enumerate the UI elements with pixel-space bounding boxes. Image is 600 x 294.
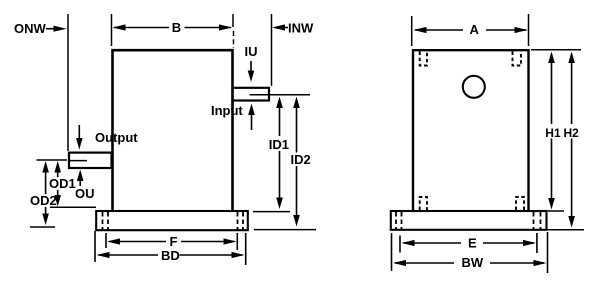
svg-text:H2: H2 — [564, 126, 580, 140]
svg-text:BW: BW — [462, 255, 484, 270]
svg-text:Input: Input — [211, 103, 243, 118]
svg-text:OU: OU — [75, 186, 95, 201]
svg-text:INW: INW — [288, 21, 314, 36]
svg-text:IU: IU — [245, 44, 258, 59]
svg-text:ID2: ID2 — [291, 152, 311, 167]
svg-text:Output: Output — [95, 130, 138, 145]
svg-text:A: A — [470, 22, 480, 37]
svg-text:ID1: ID1 — [269, 137, 289, 152]
svg-text:ONW: ONW — [14, 21, 47, 36]
svg-text:BD: BD — [161, 248, 180, 263]
svg-text:H1: H1 — [545, 126, 561, 140]
svg-text:E: E — [468, 236, 477, 251]
svg-text:F: F — [170, 234, 178, 249]
svg-text:OD2: OD2 — [30, 193, 57, 208]
svg-text:OD1: OD1 — [49, 176, 76, 191]
svg-text:B: B — [172, 20, 181, 35]
